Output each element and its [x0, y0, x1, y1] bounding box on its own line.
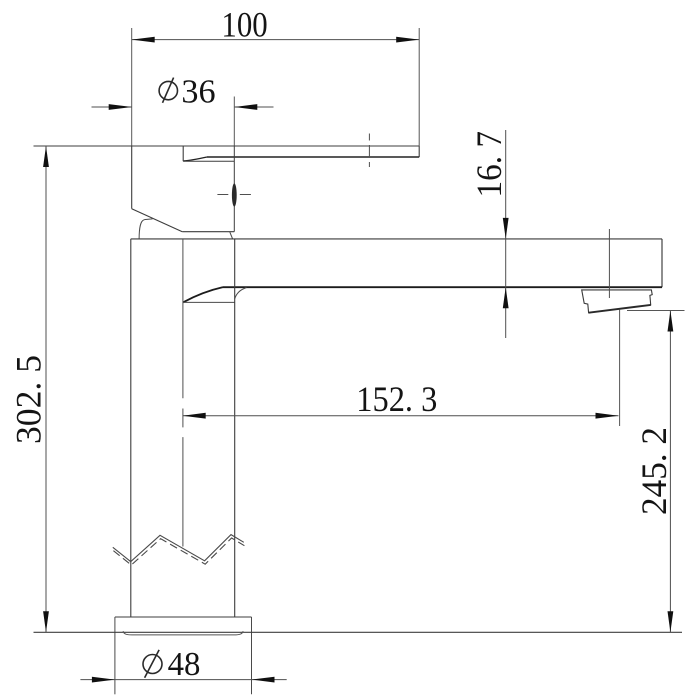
body lower-left slant [132, 209, 183, 232]
dia36 left arrowhead [109, 104, 132, 110]
svg-text:36: 36 [181, 74, 215, 111]
aerator bottom edge thick [589, 305, 651, 313]
dimension line 100 [132, 39, 420, 41]
dim 16.7 up arrowhead [503, 287, 509, 308]
dim 245.2 vertical line [669, 311, 671, 633]
aerator centerline (x=609.4) [608, 229, 610, 298]
cartridge axis dashes (horizontal y=194.5) [217, 194, 251, 196]
body left edge [131, 146, 133, 209]
spout underside back edge [183, 301, 235, 303]
extension line left (x=131.7, top of body / dim 100 + dia36 left) [131, 28, 133, 146]
extension line right of dim 100 (x=419.2) [418, 28, 420, 146]
dia48 right arrowhead [252, 677, 275, 683]
dim 152.3 right extension (x=619.6) [619, 310, 621, 427]
column centerline (dash-dot, x=182.9) [182, 239, 184, 547]
dim 16.7 vertical line [505, 130, 507, 338]
svg-text:100: 100 [221, 4, 267, 44]
body inner contour curve [139, 219, 153, 239]
dim 245.2 down arrowhead [668, 611, 674, 632]
base right edge + dia48 extension [251, 617, 253, 694]
dim 245.2 up arrowhead [668, 311, 674, 332]
body right edge / dia36 extension (x=234.3) [233, 146, 235, 232]
ledge line under lever [183, 160, 234, 162]
lever bottom line [207, 156, 419, 158]
spout bottom line [223, 286, 663, 288]
dim 16.7 down arrowhead [503, 218, 509, 239]
base bottom arc [123, 631, 243, 635]
dim 302.5 vertical line [45, 146, 47, 632]
diameter symbol of dim 48 [143, 650, 162, 678]
arrow left of dim 100 [132, 37, 155, 43]
base top line [115, 616, 252, 618]
lever right edge [418, 146, 420, 157]
dim 152.3 line [183, 415, 619, 417]
svg-text:16. 7: 16. 7 [469, 131, 509, 198]
column right edge [234, 239, 236, 617]
svg-text:152. 3: 152. 3 [356, 379, 437, 419]
svg-text:48: 48 [168, 646, 201, 683]
dim 152.3 left arrowhead [183, 413, 206, 419]
dim 245.2 top extension (horizontal) [627, 310, 685, 312]
dim 302.5 up arrowhead [43, 146, 49, 167]
body bottom line [182, 231, 234, 233]
spout top line [131, 238, 662, 240]
dia48 dimension line [80, 679, 286, 681]
counter line [34, 631, 683, 633]
dim 302.5 down arrowhead [43, 611, 49, 632]
break zigzag dashed line [113, 538, 244, 565]
dia36 right extension line (x=234.3) [233, 97, 235, 147]
break zigzag solid line [113, 535, 244, 562]
aerator outline [582, 290, 653, 313]
dia48 left arrowhead [92, 677, 115, 683]
small tick right of body bottom [230, 232, 233, 239]
svg-text:245. 2: 245. 2 [634, 427, 674, 515]
spout underside sweep curve [183, 287, 223, 302]
spout right end edge [661, 239, 663, 287]
top line of faucet (y=146) [34, 145, 420, 147]
dim 152.3 right arrowhead [596, 413, 619, 419]
base left edge + dia48 extension [114, 617, 116, 694]
fillet at column right [235, 288, 247, 299]
arrow right of dim 100 [396, 37, 419, 43]
lever wedge curve [183, 157, 207, 161]
cartridge pivot lens mark [232, 183, 237, 206]
diameter symbol of dim 36 [159, 78, 177, 103]
dia36 right arrow tail [234, 106, 273, 108]
lever pivot centerline (dashed vertical x=369.4) [368, 134, 370, 169]
step vertical at x=183.2 [182, 146, 184, 161]
dia36 right arrowhead [234, 104, 257, 110]
column left edge [130, 239, 132, 617]
dia36 left arrow tail [92, 106, 132, 108]
svg-text:302. 5: 302. 5 [9, 355, 49, 444]
